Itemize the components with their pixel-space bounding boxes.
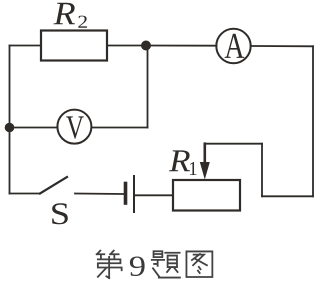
wire junction to ammeter [146,45,217,47]
battery long plate [133,176,135,212]
label R2 sub2 [78,16,87,28]
wire right vertical [312,46,314,196]
caption char TU (图) [186,251,212,277]
label A [225,34,245,58]
rheostat R1 box [173,180,240,211]
label R2 R [53,3,75,25]
wire wiper horizontal [205,143,263,145]
junction node dot right [141,41,151,51]
resistor R2 [41,31,107,61]
rheostat wiper arrowhead [200,162,210,180]
caption: 第 9 题图 [97,251,213,278]
caption char TI (题) [152,251,180,277]
label R1 R [169,150,190,171]
wire voltmeter right [91,127,147,129]
label S [52,203,68,224]
label R1 sub1 [190,162,196,175]
wire battery to R1 [135,194,173,196]
wire voltmeter branch left [10,127,58,129]
wire voltmeter branch vertical up [147,46,149,128]
rheostat wiper arrow stem [204,144,207,167]
switch S hinge wire [10,193,41,195]
battery short thick plate [124,184,128,204]
caption char DI (第) [97,251,122,278]
wire mid vertical to wiper [261,144,263,197]
switch S blade [40,177,67,194]
ammeter U-A [216,29,250,63]
wire ammeter to right corner [251,45,313,47]
wire bottom-right horizontal [262,195,313,197]
wire R2 to junction [107,45,146,47]
junction node dot left [5,123,15,133]
caption digit 9 [130,256,145,276]
voltmeter U-V [57,110,91,144]
wire switch to battery [75,193,124,196]
wire left vertical [9,46,11,194]
wire top-left horizontal [10,45,42,47]
label V [66,116,84,138]
